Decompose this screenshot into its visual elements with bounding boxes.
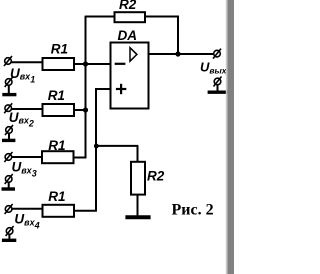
svg-text:Uвх4: Uвх4: [14, 212, 39, 231]
resistor R1 (row 3): [42, 151, 74, 163]
wire (bus A vertical: feedback + inputs 1-3): [85, 16, 87, 159]
svg-text:R1: R1: [48, 189, 65, 204]
resistor R1 (row 1): [43, 58, 75, 70]
wire (row2 right to bus A): [74, 109, 86, 111]
wire (bus B vertical up to plus): [95, 88, 97, 211]
svg-text:R2: R2: [147, 169, 165, 184]
terminal (output ground): [214, 78, 221, 85]
wire (gnd2 stem): [8, 133, 10, 139]
resistor R2 (feedback): [115, 12, 146, 22]
ground (output): [208, 90, 228, 93]
wire (feedback right leg down): [177, 16, 179, 54]
svg-text:Uвх1: Uвх1: [10, 66, 35, 85]
wire (gnd4 stem): [8, 234, 10, 239]
resistor R1 (row 4): [43, 205, 75, 217]
terminal (ground, input 2): [6, 127, 13, 134]
op-amp plus input sign: [116, 88, 126, 90]
page edge strip (gray): [227, 0, 234, 274]
ground (R2): [125, 215, 150, 219]
wire (gnd3 stem): [8, 182, 10, 188]
wire (to op-amp plus input): [95, 88, 110, 90]
terminal U_вх4: [5, 206, 12, 213]
terminal (ground, input 4): [6, 228, 13, 235]
terminal U_вх3: [5, 154, 12, 161]
ground (input 3): [2, 187, 16, 190]
terminal (ground, input 3): [5, 176, 12, 183]
svg-text:DA: DA: [118, 28, 138, 43]
resistor R2 (to ground): [131, 162, 145, 195]
wire (op-amp output): [149, 53, 214, 55]
wire (tap to vertical R2): [96, 145, 138, 147]
svg-text:R1: R1: [51, 42, 68, 57]
wire (row1 left): [11, 61, 43, 63]
terminal U_vyh: [214, 50, 221, 57]
wire (row2 left): [11, 108, 43, 110]
wire (row4 left): [12, 208, 43, 210]
resistor R1 (row 2): [43, 104, 75, 116]
svg-text:R1: R1: [48, 138, 65, 153]
ground (input 4): [2, 239, 16, 242]
wire (row1 right to op-amp minus): [74, 63, 111, 65]
ground (input 2): [2, 139, 15, 142]
node (row2 / bus A): [83, 107, 88, 112]
svg-text:Uвх3: Uвх3: [12, 160, 37, 179]
op-amp DA box: [111, 43, 149, 109]
wire (down to R2 top): [137, 146, 139, 162]
wire (row4 right to bus B): [74, 210, 97, 212]
wire (row3 left): [12, 156, 43, 158]
node (row1 / bus A): [83, 61, 88, 66]
wire (gnd1 stem): [8, 85, 10, 93]
op-amp gain triangle: [130, 48, 137, 62]
node (feedback/output junction): [175, 51, 180, 56]
terminal U_вх2: [5, 105, 12, 112]
wire (R2 right to corner): [145, 16, 179, 18]
svg-text:R2: R2: [119, 0, 137, 12]
wire (output ground stem): [217, 85, 219, 91]
node (bus B / R2-ground tap): [94, 144, 99, 149]
svg-text:Рис. 2: Рис. 2: [172, 202, 214, 219]
svg-text:Uвых: Uвых: [200, 60, 228, 76]
wire (feedback top, bus A to R2 left): [86, 16, 115, 18]
ground (input 1): [2, 93, 16, 96]
wire (R2 bottom to ground): [137, 195, 139, 216]
wire (row3 right to bus A): [74, 157, 87, 159]
op-amp minus input sign: [115, 63, 126, 65]
terminal (ground, input 1): [5, 79, 12, 86]
svg-text:R1: R1: [48, 88, 65, 103]
terminal U_вх1: [5, 58, 12, 65]
